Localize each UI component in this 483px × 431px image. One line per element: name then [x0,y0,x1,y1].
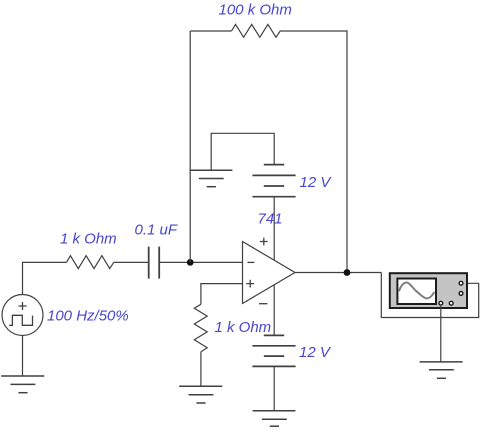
wire feedback top left [190,30,231,32]
oscilloscope XSC1 [390,273,467,308]
wire output [295,272,381,274]
battery V2 [252,165,295,197]
wire R1 to C1 [114,261,149,263]
wire output to scope right input [381,273,478,318]
wire feedback left vertical [189,31,191,262]
svg-text:100 k Ohm: 100 k Ohm [219,2,292,19]
node input junction [187,259,194,266]
resistor R2 [232,24,281,37]
svg-text:1 k Ohm: 1 k Ohm [215,319,272,336]
source V1 square-wave 100 Hz/50% [2,295,43,336]
wire battery V3 to ground [273,366,275,410]
resistor R1 [67,256,114,269]
wire feedback top right and right vertical [280,31,347,273]
ground (scope) [420,362,463,378]
wire C1 to op-amp inverting input [159,261,242,263]
battery V3 [252,335,295,366]
wire source top to R1 [23,262,67,294]
ground (source) [1,376,44,393]
wire scope ground pin [440,306,442,362]
svg-text:12 V: 12 V [300,174,333,191]
svg-text:100 Hz/50%: 100 Hz/50% [47,308,129,325]
svg-text:741: 741 [258,211,283,228]
svg-text:12 V: 12 V [299,344,332,361]
wire non-inverting input [201,284,243,305]
capacitor C1 [149,247,160,279]
wire R3 to ground [200,352,202,387]
op-amp U1 [243,238,296,304]
ground (top, battery V2 loop) [190,170,233,186]
node output junction [344,269,351,276]
svg-text:0.1 uF: 0.1 uF [135,222,178,239]
wire op-amp V- power pin [273,285,275,336]
ground (R3) [179,386,222,403]
svg-text:1 k Ohm: 1 k Ohm [60,231,117,248]
wire source bottom to ground [22,336,24,377]
resistor R3 [194,304,207,351]
wire ground to battery V2 top [211,133,274,170]
ground (battery V3) [253,411,296,426]
wire op-amp V+ power pin [273,197,275,261]
